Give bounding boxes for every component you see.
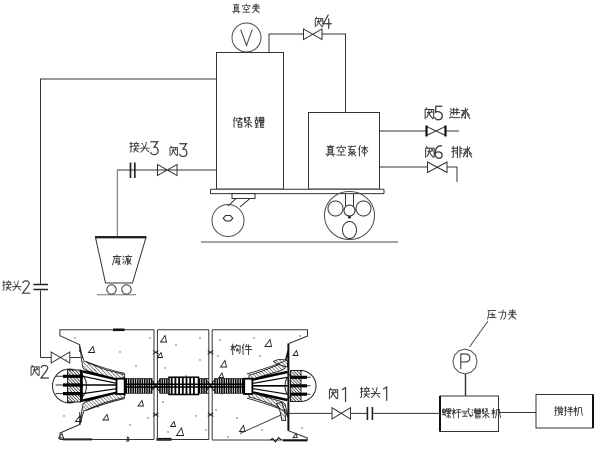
label 阀1 xyxy=(329,388,345,402)
left recess hatch upper xyxy=(80,347,125,379)
label 搅拌机 xyxy=(555,406,583,415)
right anchor plate xyxy=(291,371,302,402)
joint 1 tie marks xyxy=(153,351,159,355)
pipe down to waste cart xyxy=(116,170,118,237)
waste cart 废液 xyxy=(95,237,147,295)
right recess hatch upper xyxy=(249,350,288,379)
label 阀6 排水 xyxy=(426,146,472,159)
left recess outline lower xyxy=(80,399,125,425)
left recess outline upper xyxy=(80,345,125,374)
right recess outline lower xyxy=(247,398,284,410)
valve V4 xyxy=(304,29,323,40)
joint pinches xyxy=(151,379,161,392)
joint J1 bars xyxy=(367,407,372,420)
corrugated duct xyxy=(125,377,244,394)
label 接头1 xyxy=(360,387,386,400)
left strands xyxy=(56,376,69,393)
right recess outline upper xyxy=(247,362,284,374)
pressure gauge P xyxy=(453,349,477,374)
joint J2 bars xyxy=(34,285,49,290)
STRUCTURE xyxy=(53,330,317,442)
concrete triangles xyxy=(59,336,299,439)
valve V6 xyxy=(428,162,448,173)
coupler xyxy=(169,377,199,394)
right face line xyxy=(287,344,289,431)
left wedge cone xyxy=(83,372,117,401)
wire machine to mixer xyxy=(499,412,537,414)
valve V5 xyxy=(427,126,446,137)
tank 储浆罐 box xyxy=(217,53,284,190)
block A top thick dash xyxy=(113,328,125,331)
block A outline xyxy=(60,330,154,440)
right bell tail xyxy=(277,403,286,421)
joint J3 bars xyxy=(131,163,135,179)
bottom break mark xyxy=(127,437,130,443)
block B outline xyxy=(157,330,208,440)
right strands xyxy=(301,377,311,394)
pipe tank-left to joint2 down-left xyxy=(41,79,217,358)
left anchor plate xyxy=(68,370,82,402)
label 阀5 进水 xyxy=(425,106,470,119)
valve V2 line xyxy=(41,357,81,359)
valve V2 xyxy=(51,352,70,363)
valve V1 xyxy=(332,408,351,419)
joint 1 lines xyxy=(154,330,157,440)
label 接头3 阀3 xyxy=(130,142,187,157)
label 螺杆式灌浆机 xyxy=(442,408,500,418)
ground line under trolley xyxy=(201,241,398,243)
joint 2 tie marks xyxy=(208,351,214,355)
label 阀4 xyxy=(315,15,331,28)
label 压力表 xyxy=(488,310,517,320)
wire pump right to valve6, down drain xyxy=(380,167,458,182)
left anchor circle xyxy=(53,369,87,403)
label 接头2 xyxy=(3,281,30,293)
duct center strand band xyxy=(125,384,244,387)
vacuum gauge circle V xyxy=(232,23,261,52)
vacuum pump 真空泵体 box xyxy=(309,113,380,190)
left wheel xyxy=(212,205,244,237)
joint 2 lines xyxy=(209,330,212,440)
wire gauge to grout machine xyxy=(465,374,467,396)
wire pump right to valve5 xyxy=(380,130,460,132)
label 真空表 xyxy=(232,4,259,13)
pressure gauge P leader xyxy=(470,321,489,347)
pipe tank-left to valve3/joint3 xyxy=(117,169,216,171)
right bump xyxy=(274,359,288,367)
label 阀2 xyxy=(31,365,48,378)
right recess hatch lower xyxy=(249,393,288,418)
wire tank top to valve4 to pump top xyxy=(269,34,346,113)
label 真空泵体 xyxy=(326,145,368,156)
mixer box 搅拌机 xyxy=(536,395,593,429)
pipe machine to structure with valve1 joint1 xyxy=(289,412,441,414)
leader diagonal to anchor xyxy=(240,415,282,434)
right wedge cone xyxy=(253,372,287,400)
right collar xyxy=(244,379,252,394)
trolley platform xyxy=(211,189,385,193)
right anchor circle xyxy=(285,371,316,402)
valve V3 xyxy=(158,165,178,176)
grout machine box 螺杆式灌浆机 xyxy=(440,396,499,432)
right wheel assembly xyxy=(325,192,375,240)
left wheel bracket xyxy=(228,194,255,208)
left recess hatch lower xyxy=(80,393,125,425)
bottom thick dash xyxy=(157,438,172,441)
block C outline xyxy=(212,330,307,440)
concrete dots xyxy=(63,335,302,437)
label 构件 xyxy=(231,344,252,355)
label 废液 xyxy=(112,255,131,265)
left collar xyxy=(117,379,125,394)
label 储浆罐 xyxy=(233,117,264,127)
